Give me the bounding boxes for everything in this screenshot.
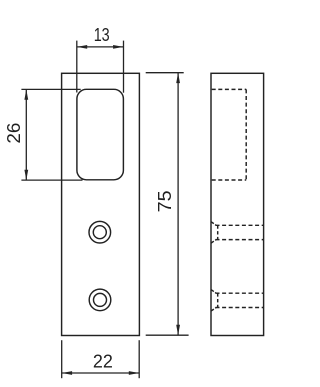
hidden hole H1 sink edge bbox=[217, 225, 219, 239]
dim 75 extension bottom bbox=[146, 334, 189, 336]
dim 13 extension right bbox=[123, 41, 125, 93]
dim 26 arrow bottom bbox=[24, 170, 28, 180]
dim 13 extension left bbox=[76, 41, 78, 93]
dim 26 extension top bbox=[21, 88, 80, 90]
hidden hole H2 top bbox=[216, 292, 264, 294]
dim 26 arrow top bbox=[24, 89, 28, 99]
dim 26 line bbox=[25, 89, 27, 180]
hole H1 outer bbox=[89, 221, 111, 243]
svg-text:13: 13 bbox=[94, 25, 110, 45]
dim 75 line bbox=[177, 73, 179, 336]
dim 13 arrow left bbox=[77, 45, 87, 49]
front view outline bbox=[62, 73, 140, 335]
hidden hole H2 bottom bbox=[216, 307, 264, 309]
dim 22 arrow left bbox=[62, 371, 72, 375]
svg-text:75: 75 bbox=[155, 190, 175, 212]
dim 22 line bbox=[62, 372, 140, 374]
hidden hole H1 bottom bbox=[216, 239, 264, 241]
hidden slot top bbox=[212, 88, 247, 90]
hole H1 inner bbox=[93, 226, 106, 239]
side view outline bbox=[211, 73, 264, 335]
dim 13 line bbox=[77, 46, 124, 48]
dim 75 arrow top bbox=[176, 73, 180, 83]
hidden hole H1 cone top bbox=[211, 222, 216, 226]
dim 75 arrow bottom bbox=[176, 325, 180, 335]
dim 26 extension bottom bbox=[21, 179, 82, 181]
svg-text:22: 22 bbox=[93, 352, 113, 372]
hidden hole H1 top bbox=[216, 224, 264, 226]
hidden slot depth bbox=[245, 89, 247, 180]
hidden hole H1 cone bottom bbox=[211, 240, 216, 243]
hidden hole H2 sink edge bbox=[217, 293, 219, 307]
hidden hole H2 cone top bbox=[211, 290, 216, 294]
hole H2 inner bbox=[94, 293, 107, 306]
svg-text:26: 26 bbox=[4, 123, 24, 144]
dim 22 arrow right bbox=[129, 371, 139, 375]
hidden slot bottom bbox=[212, 179, 247, 181]
dim 75 extension top bbox=[146, 72, 184, 74]
hole H2 outer bbox=[89, 289, 111, 311]
slot bbox=[77, 89, 124, 180]
dim 22 extension left bbox=[61, 340, 63, 378]
hidden hole H2 cone bottom bbox=[211, 308, 216, 311]
dim 22 extension right bbox=[138, 340, 140, 378]
dim 13 arrow right bbox=[113, 45, 123, 49]
